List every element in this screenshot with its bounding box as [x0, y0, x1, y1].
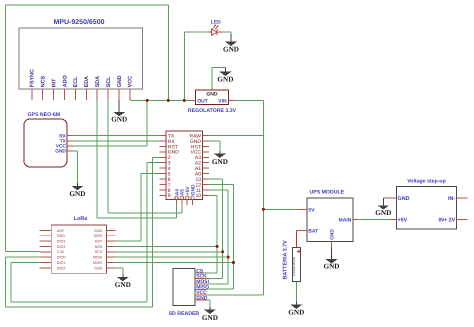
svg-text:DIO3: DIO3 [57, 240, 66, 244]
wire GPS TX to arduino RX [73, 140, 160, 142]
svg-text:+5V: +5V [185, 186, 191, 195]
svg-text:GND: GND [55, 149, 66, 155]
svg-text:9: 9 [168, 193, 171, 199]
wire arduino pin2 to LoRa DIO0 (outer loop) [5, 157, 159, 307]
svg-text:GND: GND [94, 266, 103, 270]
svg-text:+5V: +5V [398, 218, 408, 224]
svg-text:SCK: SCK [95, 250, 103, 254]
svg-text:GND: GND [212, 158, 228, 166]
svg-text:RST: RST [95, 240, 103, 244]
module GPS NEO-6M [24, 119, 73, 167]
svg-text:ADO: ADO [62, 75, 68, 87]
wire GPS GND [73, 151, 77, 183]
svg-text:GND: GND [196, 296, 208, 302]
wire SPI MISO: arduino 12 - LoRa MISO - SD MISO [116, 185, 234, 290]
wire UPS MAIN to step-up +5V [358, 219, 389, 221]
svg-text:MPU-9250/6500: MPU-9250/6500 [54, 18, 105, 26]
wire SD GND to ground [206, 300, 210, 306]
svg-text:A5: A5 [180, 189, 186, 195]
svg-text:BAT: BAT [308, 228, 318, 234]
svg-text:MISO: MISO [93, 261, 103, 265]
svg-text:VIN: VIN [218, 99, 227, 105]
svg-text:MOSI: MOSI [93, 256, 102, 260]
wire GPS RX to arduino TX [73, 135, 160, 137]
ground (LoRa) [115, 275, 131, 289]
module UPS [297, 198, 359, 247]
junction SCK [221, 250, 224, 253]
wire VCC bus MPU to regulator OUT [130, 99, 189, 102]
svg-text:DIO2: DIO2 [57, 266, 66, 270]
wire MPU SCL to arduino A5 [108, 100, 182, 213]
module SD reader [173, 268, 210, 305]
module voltage step-up [390, 187, 468, 230]
wire arduino pin5 to LoRa RST [116, 174, 160, 242]
ground (LED) [223, 34, 239, 54]
wire regulator VIN to 5V rail [235, 99, 264, 101]
svg-text:5V: 5V [308, 207, 315, 213]
svg-text:ANT: ANT [57, 229, 65, 233]
wire 5V down to SD VCC [206, 209, 263, 295]
svg-text:GND: GND [288, 309, 304, 317]
svg-text:REGOLATORE 3.3V: REGOLATORE 3.3V [188, 108, 237, 114]
wire regulator GND pin up [212, 67, 226, 87]
junction NSS/CS [216, 245, 219, 248]
wire MPU SDA to arduino A4 [97, 100, 176, 218]
svg-text:SD READER: SD READER [169, 311, 200, 317]
svg-text:DIO5: DIO5 [94, 234, 103, 238]
svg-text:GND: GND [375, 209, 391, 217]
svg-text:GND: GND [324, 263, 340, 271]
wire arduino RAW feed [209, 135, 263, 137]
wire LED cathode to ground [222, 32, 231, 34]
svg-text:FSYNC: FSYNC [30, 69, 36, 87]
wire 5V to UPS 5V pin [263, 208, 296, 210]
svg-text:GND: GND [57, 234, 66, 238]
svg-text:Voltage step-up: Voltage step-up [407, 179, 446, 185]
ground (arduino) [212, 151, 228, 166]
svg-text:DIO0: DIO0 [57, 256, 66, 260]
wire SPI CS/NSS: arduino 10 - LoRa NSS - SD CS [116, 195, 218, 273]
junction VCC/GPS-VCC [146, 99, 149, 102]
junction VCC/3.3V rail [167, 99, 170, 102]
wire GPS VCC riser [73, 100, 147, 145]
wire arduino pin3 to LoRa DIO1 (inner loop) [11, 163, 160, 302]
svg-text:3.3V: 3.3V [57, 250, 65, 254]
ground (battery) [288, 301, 304, 316]
svg-text:A4: A4 [174, 189, 180, 195]
svg-text:OUT: OUT [197, 99, 208, 105]
svg-text:GND: GND [117, 75, 123, 87]
junction 5V/UPS [262, 208, 265, 211]
svg-text:GND: GND [190, 184, 196, 195]
junction MISO [232, 261, 235, 264]
svg-text:GND: GND [398, 196, 410, 202]
svg-text:GND: GND [202, 314, 218, 322]
svg-text:LED: LED [211, 19, 221, 25]
junction VCC/LED branch [183, 99, 186, 102]
wire battery negative to ground [295, 282, 297, 302]
svg-text:IN+ 2V: IN+ 2V [439, 218, 456, 224]
wire LoRa GND to ground [116, 268, 123, 275]
svg-text:GND: GND [94, 229, 103, 233]
ground (regulator) [217, 67, 233, 83]
module regolatore 3.3V [189, 87, 235, 105]
svg-text:GPS NEO-6M: GPS NEO-6M [28, 112, 61, 118]
svg-text:IN-: IN- [448, 196, 455, 202]
svg-text:GND: GND [217, 76, 233, 84]
svg-text:ECL: ECL [73, 76, 79, 87]
module LoRa [40, 225, 116, 273]
svg-text:MAIN: MAIN [339, 218, 352, 224]
svg-text:SCL: SCL [106, 76, 112, 87]
svg-text:GND: GND [223, 46, 239, 54]
svg-text:RX: RX [59, 133, 66, 139]
svg-text:NSS: NSS [95, 245, 103, 249]
wire arduino GND to ground [209, 141, 220, 151]
svg-text:NCS: NCS [41, 76, 47, 88]
wire 5V vertical rail [262, 100, 264, 209]
svg-text:GND: GND [115, 281, 131, 289]
svg-text:LoRa: LoRa [74, 216, 88, 222]
wire step-up GND stub corner [383, 197, 389, 199]
svg-text:TX: TX [60, 139, 67, 145]
wire 3.3V rail top-left loop [5, 5, 168, 252]
svg-text:GND: GND [330, 229, 336, 240]
svg-text:GND: GND [206, 91, 218, 97]
diode LED1 [208, 25, 222, 35]
battery BT1 3.7V [292, 247, 301, 281]
ground (SD) [202, 307, 218, 322]
svg-text:GND: GND [69, 190, 85, 198]
IC U1 MPU-9250/6500 [19, 28, 143, 100]
svg-text:INT: INT [51, 78, 57, 87]
junction MOSI [227, 256, 230, 259]
svg-text:DIO4: DIO4 [57, 245, 66, 249]
svg-text:EDA: EDA [84, 76, 90, 87]
svg-text:GND: GND [111, 115, 127, 123]
ground (GPS) [69, 183, 85, 198]
svg-text:DIO1: DIO1 [57, 261, 66, 265]
svg-text:BATTERIA 3.7V: BATTERIA 3.7V [282, 240, 288, 280]
wire SPI SCK: arduino 13 - LoRa SCK - SD SCK [116, 179, 223, 278]
ground (step-up) [375, 198, 391, 217]
wire battery positive (red) [296, 230, 307, 247]
ground (MPU) [111, 100, 127, 124]
svg-text:SDA: SDA [95, 76, 101, 87]
ground (UPS) [324, 247, 340, 270]
wire LED branch [184, 32, 207, 100]
svg-text:UPS MODULE: UPS MODULE [310, 190, 345, 196]
svg-text:VCC: VCC [128, 76, 134, 87]
wire SPI MOSI: arduino 11 - LoRa MOSI - SD MOSI [116, 190, 229, 284]
IC U2 Arduino Pro Mini [160, 131, 210, 205]
svg-text:10000 mAh: 10000 mAh [292, 257, 296, 276]
